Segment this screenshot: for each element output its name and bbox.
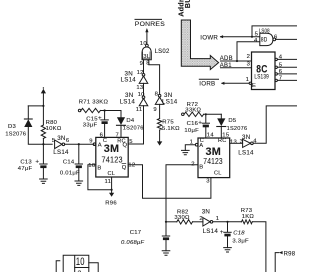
diode D3 cathode bar bbox=[24, 118, 32, 120]
svg-text:Q: Q bbox=[123, 142, 128, 148]
wire C13 top bbox=[42, 144, 44, 164]
pin 6 label IC1 bbox=[100, 132, 104, 138]
svg-text:LS139: LS139 bbox=[254, 74, 269, 81]
capacitor C18 bbox=[224, 231, 231, 233]
plus sign C13 bbox=[35, 159, 39, 166]
IC 10 box corner bracket bbox=[56, 261, 60, 272]
wire +5V to R80 bbox=[42, 93, 44, 125]
svg-text:10KΩ: 10KΩ bbox=[46, 126, 62, 132]
svg-text:7: 7 bbox=[279, 76, 283, 82]
label 0.01uF bbox=[60, 170, 80, 176]
svg-text:13: 13 bbox=[230, 139, 238, 145]
label D4 bbox=[126, 118, 135, 124]
label LS14 of inverter 12-13 bbox=[121, 76, 137, 83]
capacitor C16 bbox=[202, 122, 209, 124]
pin 2 label LS14-f bbox=[199, 216, 203, 222]
resistor R75 bbox=[157, 119, 161, 131]
wire R98 connector bbox=[275, 253, 279, 272]
svg-text:10μF: 10μF bbox=[184, 128, 199, 134]
ground below C13 bbox=[40, 179, 48, 183]
junction C15 bbox=[104, 109, 106, 111]
label 1K bbox=[242, 214, 255, 220]
IC2 label 3M bbox=[206, 146, 222, 158]
svg-text:12: 12 bbox=[128, 162, 135, 168]
label R98 bbox=[284, 251, 296, 257]
svg-text:8D: 8D bbox=[261, 38, 268, 44]
wire LS14-e output up to right edge bbox=[253, 106, 297, 143]
wire R75 bottom bbox=[159, 130, 161, 142]
svg-text:11: 11 bbox=[136, 107, 143, 113]
gate id 3L text bbox=[143, 54, 151, 60]
svg-text:C13: C13 bbox=[20, 159, 32, 165]
IC1 label B bbox=[97, 165, 101, 171]
capacitor C15 bbox=[101, 119, 108, 121]
pin 11 label IC1 bbox=[105, 179, 112, 185]
inverter U3N-f triangle bbox=[203, 218, 210, 226]
pin 9 label bbox=[140, 61, 144, 67]
pin 2 label IC2 bbox=[191, 162, 195, 168]
svg-text:B: B bbox=[97, 165, 101, 171]
svg-text:10: 10 bbox=[138, 92, 146, 98]
svg-text:1KΩ: 1KΩ bbox=[242, 214, 255, 220]
label 1S2076 for D4 bbox=[123, 126, 144, 132]
IC1 label CL bbox=[108, 171, 116, 177]
label LS139 bbox=[254, 74, 269, 81]
svg-text:3N: 3N bbox=[202, 208, 210, 215]
svg-text:9: 9 bbox=[153, 107, 157, 113]
label 3.3uF bbox=[232, 239, 249, 245]
inverter U3N-d bubble bbox=[62, 143, 65, 146]
and gate 8D body bbox=[260, 33, 273, 45]
label LS08 bbox=[259, 28, 270, 34]
pin 5 label gate 8D bbox=[255, 31, 259, 37]
node IORB overline bbox=[199, 78, 218, 80]
label D5 bbox=[228, 118, 237, 124]
wire D3 top bbox=[27, 106, 29, 119]
label 0.068uF bbox=[121, 240, 144, 246]
svg-text:CL: CL bbox=[214, 170, 222, 176]
wire from 10 box right bbox=[89, 263, 98, 272]
inverter U3N-d triangle bbox=[55, 140, 62, 149]
ground below C14 bbox=[75, 181, 83, 185]
svg-text:74123: 74123 bbox=[102, 155, 123, 165]
svg-text:CL: CL bbox=[108, 171, 116, 177]
8C output bubble pin7 bbox=[275, 79, 277, 81]
IC2 label 74123 bbox=[203, 156, 223, 166]
label R96 bbox=[105, 201, 117, 207]
pin 6 label LS14-d bbox=[66, 138, 70, 144]
node PONRES label bbox=[135, 21, 165, 28]
wire 8C out4 bbox=[277, 58, 297, 60]
svg-text:LS14: LS14 bbox=[121, 76, 137, 83]
svg-text:6: 6 bbox=[66, 138, 70, 144]
wire C13 to ground bbox=[42, 168, 44, 179]
wire LS14-f output to R73 bbox=[213, 221, 242, 223]
svg-text:3M: 3M bbox=[104, 143, 120, 155]
svg-text:4: 4 bbox=[279, 55, 283, 61]
junction C16 bbox=[205, 113, 207, 115]
resistor R72 bbox=[184, 112, 204, 116]
label LS14-d bbox=[53, 149, 69, 156]
ground at IC2 A bbox=[182, 150, 190, 154]
pin 4 label out bbox=[279, 55, 283, 61]
pin 7 label IC1 bbox=[116, 133, 120, 139]
label 33K R72 bbox=[185, 107, 201, 113]
pin 5 label LS14-d bbox=[52, 138, 56, 144]
svg-text:LS14: LS14 bbox=[238, 150, 254, 157]
IC1 label 3M bbox=[104, 143, 120, 155]
svg-text:R98: R98 bbox=[284, 251, 296, 257]
label C16 bbox=[187, 121, 199, 127]
label LS14 of inverter 10-11 bbox=[120, 98, 136, 105]
inverter U3N-a triangle bbox=[139, 76, 148, 83]
label 5.1K bbox=[162, 126, 180, 132]
resistor R73 bbox=[242, 220, 253, 224]
wire 8C out6 bbox=[277, 73, 297, 75]
pin 9 label IC1 bbox=[89, 139, 93, 145]
label C17 bbox=[130, 230, 142, 236]
pin 10 label bbox=[138, 92, 146, 98]
svg-text:13: 13 bbox=[136, 85, 144, 91]
junction C18 bbox=[226, 221, 228, 223]
label 330 bbox=[174, 215, 190, 221]
inverter U3N-a bubble bbox=[142, 74, 145, 77]
label 1S2076 for D3 bbox=[5, 132, 26, 138]
wire IC2 Q13 to inverter bbox=[230, 142, 243, 144]
pin E label bbox=[252, 83, 256, 89]
label LS14 of inverter 8-9 bbox=[162, 99, 178, 106]
label R72 bbox=[187, 102, 199, 108]
svg-text:3N: 3N bbox=[57, 135, 65, 142]
nor gate 3L LS02 body bbox=[142, 47, 151, 60]
label 10uF bbox=[184, 128, 199, 134]
svg-text:R75: R75 bbox=[162, 120, 174, 126]
svg-text:3: 3 bbox=[206, 178, 210, 184]
label BUS (rotated) bbox=[183, 0, 192, 8]
pin 7 label out bbox=[279, 76, 283, 82]
label 10 bbox=[76, 256, 85, 268]
IC1 label A bbox=[98, 142, 102, 148]
svg-text:LS14: LS14 bbox=[53, 149, 69, 156]
wire gate3L input 8 down right to inverter pin 8 bbox=[149, 60, 160, 95]
inverter U3N-e bubble bbox=[251, 142, 254, 145]
pin 5 label IC1 Q bbox=[129, 139, 133, 145]
IC 8C LS139 box bbox=[252, 52, 276, 90]
wire C17 R82 junction bbox=[165, 221, 167, 223]
pin 4 label gate 8D bbox=[254, 38, 258, 44]
IC2 label CL bbox=[214, 170, 222, 176]
pin 4 label LS14-e bbox=[253, 139, 257, 145]
junction B CL R96 bbox=[111, 189, 113, 191]
inverter U3N-b triangle bbox=[139, 99, 148, 106]
IC1 label Qbar bbox=[122, 165, 127, 171]
diode D3 triangle bbox=[24, 119, 32, 127]
svg-text:1S2076: 1S2076 bbox=[5, 132, 26, 138]
wire D5 to IC2 pin15 bbox=[220, 127, 222, 139]
wire C16 top bbox=[205, 114, 207, 123]
plus sign C18 bbox=[220, 229, 224, 236]
resistor R82 bbox=[177, 220, 193, 224]
label 47uF bbox=[18, 166, 33, 172]
pin 8 label bbox=[146, 61, 150, 67]
label R75 bbox=[162, 120, 174, 126]
wire PONRES output bbox=[146, 32, 148, 45]
svg-text:0.01μF: 0.01μF bbox=[60, 170, 80, 176]
svg-text:9: 9 bbox=[140, 61, 144, 67]
node PONRES overline bbox=[135, 18, 162, 20]
svg-text:Q: Q bbox=[122, 165, 127, 171]
wire C16 to IC2 pin14 bbox=[205, 127, 207, 138]
junction D3 top bbox=[42, 105, 44, 107]
wire IC2 B down to R82 node bbox=[166, 165, 198, 222]
8C enable bubble bbox=[249, 82, 251, 84]
label 8C bbox=[256, 63, 267, 75]
wire C14 to ground bbox=[78, 168, 80, 181]
svg-text:3.3μF: 3.3μF bbox=[232, 239, 249, 245]
inverter U3N-e triangle bbox=[243, 139, 251, 147]
pin 1 label IC2 bbox=[190, 140, 194, 146]
svg-text:47μF: 47μF bbox=[18, 166, 33, 172]
svg-text:+: + bbox=[198, 120, 202, 127]
IC2 74123 box bbox=[198, 138, 230, 178]
svg-text:5: 5 bbox=[255, 31, 259, 37]
pin 12 label IC1 Qbar bbox=[128, 162, 135, 168]
8C output bubble pin5 bbox=[275, 66, 277, 68]
wire R73 to bottom edge bbox=[252, 222, 266, 272]
svg-text:1S2076: 1S2076 bbox=[123, 126, 144, 132]
svg-text:IOWR: IOWR bbox=[200, 34, 218, 41]
label 33uF bbox=[83, 122, 98, 128]
svg-text:C14: C14 bbox=[63, 159, 75, 165]
svg-text:+: + bbox=[35, 159, 39, 166]
wire IC2 A to ground bbox=[185, 145, 195, 151]
label 3N of inverter 10-11 bbox=[125, 92, 133, 99]
capacitor C13 bbox=[40, 163, 47, 165]
divider line in 10 box bbox=[75, 267, 89, 269]
label AB1 bbox=[220, 63, 233, 69]
wire gate 8D pin4 to ADB junction bbox=[237, 42, 260, 61]
wire C17 top bbox=[165, 222, 167, 236]
pin 1 label LS14-f bbox=[216, 216, 220, 222]
pin 6 label gate 8D bbox=[274, 34, 278, 40]
junction C14 bbox=[78, 143, 80, 145]
+5V arrow terminal bbox=[41, 89, 46, 94]
svg-text:10: 10 bbox=[76, 256, 85, 268]
IC1 label RC bbox=[117, 138, 126, 144]
IC2 A bubble pin1 bbox=[195, 143, 198, 146]
wire R71 to junction and D4 bbox=[101, 110, 122, 112]
wire to R96 bbox=[111, 190, 113, 193]
wire C18 top bbox=[227, 222, 229, 232]
svg-text:RC: RC bbox=[218, 138, 227, 144]
IC 10 box bbox=[63, 255, 89, 272]
wire inverter11 input down to IC1 Q5 wire bbox=[143, 106, 145, 144]
pin 2 label bbox=[247, 54, 251, 60]
svg-text:8: 8 bbox=[155, 92, 159, 98]
svg-text:74123: 74123 bbox=[203, 156, 223, 166]
wire C14 top bbox=[78, 144, 80, 164]
wire ADB to 8C pin2 bbox=[221, 60, 252, 62]
svg-text:A: A bbox=[199, 143, 203, 149]
IC1 label Q bbox=[123, 142, 128, 148]
IC1 A bubble pin9 bbox=[93, 143, 96, 146]
label LS14-e bbox=[238, 150, 254, 157]
label R80 bbox=[46, 120, 58, 126]
svg-text:2: 2 bbox=[247, 54, 251, 60]
svg-text:11: 11 bbox=[105, 179, 112, 185]
inverter U3N-c triangle bbox=[155, 97, 164, 104]
arrowhead IOWR left bbox=[220, 35, 224, 38]
8C output bubble pin4 bbox=[275, 58, 277, 60]
wire 8C out7 bbox=[277, 79, 297, 81]
label R73 bbox=[241, 208, 253, 214]
pin 3 label bbox=[247, 62, 251, 68]
arrowhead R96 down bbox=[109, 193, 114, 197]
pin 14 label IC2 bbox=[207, 133, 215, 139]
wire inverter13 input from inverter10 output bbox=[143, 83, 145, 96]
IC1 74123 box bbox=[96, 137, 128, 177]
wire D3 bottom to bus bbox=[28, 127, 52, 145]
svg-text:D4: D4 bbox=[126, 118, 135, 124]
svg-text:330Ω: 330Ω bbox=[174, 215, 190, 221]
label 1S2076 for D5 bbox=[227, 126, 248, 132]
wire IC1 Q5 right up to inverter chain bbox=[128, 143, 143, 145]
svg-text:3: 3 bbox=[247, 62, 251, 68]
pin 8 label inverter3 bbox=[155, 92, 159, 98]
ground below C18 bbox=[224, 248, 232, 252]
svg-text:E: E bbox=[252, 83, 256, 89]
pin 13 label IC2 bbox=[230, 139, 238, 145]
svg-text:PONRES: PONRES bbox=[135, 21, 165, 28]
label R71 33K bbox=[79, 100, 109, 106]
label C18 bbox=[233, 230, 245, 236]
pin 12 label bbox=[137, 70, 144, 76]
svg-text:C18: C18 bbox=[233, 230, 245, 236]
pin 1 label bbox=[246, 77, 250, 83]
gate id 8D text bbox=[261, 38, 268, 44]
svg-text:8: 8 bbox=[146, 61, 150, 67]
wire IC1 B left down around bbox=[88, 165, 112, 190]
svg-text:R71 33KΩ: R71 33KΩ bbox=[79, 100, 109, 106]
svg-text:9: 9 bbox=[89, 139, 93, 145]
label 3N of inverter 8-9 bbox=[164, 92, 172, 99]
label C13 bbox=[20, 159, 32, 165]
svg-text:0.068μF: 0.068μF bbox=[121, 240, 144, 246]
wire 8C out5 bbox=[277, 66, 297, 68]
svg-text:IORB: IORB bbox=[199, 81, 215, 88]
gate 8D output bubble bbox=[273, 38, 276, 41]
svg-text:LS14: LS14 bbox=[120, 98, 136, 105]
svg-text:1S2076: 1S2076 bbox=[227, 126, 248, 132]
IC1 label C bbox=[103, 138, 107, 144]
svg-text:LS14: LS14 bbox=[203, 228, 219, 235]
svg-text:BUS: BUS bbox=[183, 0, 192, 8]
svg-text:C16: C16 bbox=[187, 121, 199, 127]
diode D4 cathode bar bbox=[117, 124, 126, 126]
wire IC1 CL pin11 bbox=[111, 177, 113, 190]
arrowhead R75 net down bbox=[157, 141, 162, 145]
svg-text:D5: D5 bbox=[228, 118, 237, 124]
terminal circle R71 bbox=[78, 109, 81, 112]
wire LS14-d output to IC1 A bbox=[65, 143, 94, 145]
IC1 label 74123 bbox=[102, 155, 123, 165]
plus sign C16 bbox=[198, 120, 202, 127]
pin 10 label of gate 3L bbox=[140, 41, 148, 47]
svg-text:5: 5 bbox=[279, 63, 283, 69]
junction R80 C13 bus bbox=[42, 143, 44, 145]
label C14 bbox=[63, 159, 75, 165]
terminal circle R72 bbox=[182, 113, 185, 116]
wire D4 top bbox=[120, 111, 122, 118]
partial 3 below divider bbox=[78, 271, 82, 272]
ground below C17 bbox=[162, 251, 170, 255]
svg-text:B: B bbox=[199, 164, 203, 170]
wire C15 top bbox=[104, 111, 106, 120]
label 3N LS14-f bbox=[202, 208, 210, 215]
diode D5 triangle bbox=[217, 118, 225, 126]
arrowhead IORB left bbox=[221, 82, 225, 85]
wire junction to R82 bbox=[166, 221, 177, 223]
plus sign C15 bbox=[98, 115, 102, 122]
resistor R80 bbox=[41, 125, 45, 139]
pin 15 label IC2 bbox=[222, 133, 230, 139]
wire R80 bottom to bus bbox=[42, 139, 44, 145]
svg-text:5: 5 bbox=[52, 138, 56, 144]
IC2 label B bbox=[199, 164, 203, 170]
pin 13 label bbox=[136, 85, 144, 91]
wire IC1 Q12 to IC2 CL3 bbox=[128, 165, 211, 199]
wire D4 to IC1 pin7 bbox=[120, 125, 122, 137]
wire IOWR to gate pin5 bbox=[221, 36, 260, 38]
pin 9 label inverter3 bbox=[153, 107, 157, 113]
wire C15 to IC1 pin6 bbox=[104, 124, 106, 137]
dot above +5V arrow bbox=[43, 87, 44, 88]
wire gate 8D output to right edge bbox=[276, 38, 297, 40]
8C output bubble pin6 bbox=[275, 73, 277, 75]
wire IORB to E bbox=[222, 82, 249, 84]
svg-text:LS02: LS02 bbox=[155, 49, 170, 55]
svg-text:1: 1 bbox=[246, 77, 250, 83]
pin 6 label out bbox=[279, 69, 283, 75]
pin 3 label LS14-e bbox=[240, 139, 244, 145]
resistor R71 bbox=[81, 108, 101, 112]
wire R72 to D5 bbox=[204, 113, 222, 115]
svg-text:5.1KΩ: 5.1KΩ bbox=[162, 126, 180, 132]
svg-text:A: A bbox=[98, 142, 102, 148]
diode D4 triangle bbox=[117, 117, 125, 125]
label 3N of inverter 12-13 bbox=[125, 70, 133, 77]
inverter U3N-f bubble bbox=[210, 221, 213, 224]
wire AB1 to 8C pin3 bbox=[221, 67, 252, 69]
inverter U3N-c bubble bbox=[158, 94, 161, 97]
diode D5 cathode bar bbox=[217, 126, 226, 128]
gate id 3L inner box bbox=[143, 52, 150, 59]
pin 10 label IC1 B bbox=[88, 163, 96, 169]
IC2 label C bbox=[200, 138, 204, 144]
arrowhead up to PONRES bbox=[145, 28, 148, 32]
label C15 bbox=[86, 116, 98, 122]
label IORB bbox=[199, 81, 215, 88]
junction ADB pin4 bbox=[236, 60, 238, 62]
IC2 label RC bbox=[218, 138, 227, 144]
label LS14-f bbox=[203, 228, 219, 235]
svg-text:R96: R96 bbox=[105, 201, 117, 207]
wire C18 to ground bbox=[227, 236, 229, 247]
arrowhead R98 left bbox=[279, 251, 283, 254]
wire inverter9 input to R75 bbox=[159, 104, 161, 118]
capacitor C17 bbox=[162, 235, 169, 237]
svg-text:+: + bbox=[98, 115, 102, 122]
